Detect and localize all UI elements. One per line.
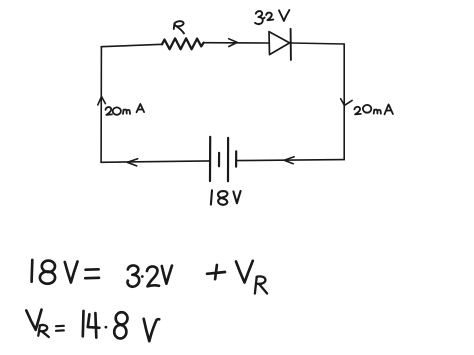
battery B1 plate long 1 <box>209 137 211 181</box>
digit 1 <box>81 311 84 336</box>
equals sign <box>85 269 99 278</box>
wire bottom-right segment <box>237 160 345 161</box>
digit 1 <box>30 260 33 282</box>
diode D1 triangle <box>269 32 290 55</box>
subscript R <box>38 325 49 337</box>
label R <box>174 21 184 33</box>
letter V <box>26 310 41 330</box>
digit 8 <box>42 261 55 272</box>
digit 4 <box>88 313 100 338</box>
wire top-left segment <box>101 44 162 46</box>
letter V <box>65 262 78 283</box>
wire bottom-left segment <box>101 161 210 162</box>
equation line 2: VR = 14.8 V <box>26 310 159 342</box>
equals sign (small) <box>56 326 64 331</box>
decimal dot <box>105 326 108 329</box>
digit 3 <box>127 265 139 286</box>
letter V <box>144 319 160 341</box>
battery B1 plate long 2 <box>227 138 229 181</box>
plus sign <box>207 265 225 279</box>
battery B1 plate short 1 <box>218 153 220 166</box>
label 3.2 V <box>255 10 289 24</box>
current arrow right (pointing down) <box>341 99 352 106</box>
subscript R <box>255 276 267 293</box>
digit 8 <box>116 312 128 324</box>
letter V <box>162 266 172 284</box>
decimal dot <box>141 275 144 278</box>
wire resistor-to-diode <box>204 42 269 44</box>
current arrow top (pointing right) <box>229 39 238 47</box>
current arrow bottom-right (pointing left) <box>284 157 294 164</box>
current arrow bottom-left (pointing left) <box>127 159 138 166</box>
wire right side <box>343 44 345 160</box>
wire left side <box>100 47 102 163</box>
current arrow left (pointing up) <box>98 97 106 105</box>
label 18 V battery value <box>211 190 241 204</box>
letter V <box>236 261 253 283</box>
label 20mA left <box>106 104 145 115</box>
digit 2 <box>147 266 159 286</box>
diode D1 cathode bar <box>290 29 292 60</box>
wire diode-to-top-right corner <box>291 43 344 44</box>
battery B1 plate short 2 <box>235 151 237 166</box>
equation line 1: 18 V = 3.2 V + VR <box>32 260 268 294</box>
resistor R <box>162 38 204 49</box>
label 20mA right <box>354 104 393 114</box>
